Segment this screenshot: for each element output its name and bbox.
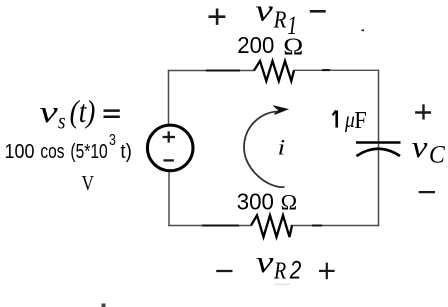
small dash artifact top right bbox=[362, 29, 365, 31]
svg-text:200: 200 bbox=[237, 32, 274, 58]
wire bottom horizontal right segment bbox=[291, 225, 380, 227]
svg-text:3: 3 bbox=[109, 132, 116, 149]
svg-text:V: V bbox=[82, 171, 95, 195]
label plus sign of vR1 bbox=[209, 15, 226, 18]
svg-text:i: i bbox=[278, 135, 286, 160]
current loop arrowhead bbox=[274, 106, 288, 115]
svg-text:Ω: Ω bbox=[283, 33, 303, 60]
svg-text:R: R bbox=[273, 7, 287, 34]
wire bottom darker overlay segment bbox=[202, 224, 239, 226]
wire top horizontal right segment bbox=[294, 69, 380, 71]
label plus sign of vC bbox=[415, 111, 431, 113]
wire top darker overlay segment bbox=[206, 69, 240, 71]
current loop arc i bbox=[244, 112, 285, 188]
svg-text:cos: cos bbox=[40, 141, 64, 163]
svg-text:R: R bbox=[273, 259, 286, 285]
label plus sign of vR2 bbox=[319, 270, 335, 272]
wire left vertical upper (top corner to source) bbox=[168, 70, 170, 125]
wire right vertical bbox=[378, 70, 380, 226]
voltage source minus sign bbox=[164, 159, 174, 161]
label minus sign of vR1 bbox=[310, 10, 326, 13]
svg-text:(t): (t) bbox=[70, 93, 96, 129]
label minus sign of vC bbox=[419, 191, 435, 193]
wire top horizontal left segment bbox=[168, 70, 255, 72]
svg-text:300: 300 bbox=[237, 189, 274, 215]
svg-text:t): t) bbox=[120, 141, 131, 163]
resistor R2 300 ohm zigzag bbox=[251, 215, 292, 237]
svg-text:F: F bbox=[354, 108, 367, 134]
svg-text:v: v bbox=[39, 94, 58, 129]
svg-text:v: v bbox=[255, 0, 273, 28]
resistor R1 200 ohm zigzag bbox=[254, 61, 294, 81]
small dot artifact bottom left bbox=[102, 304, 106, 307]
svg-text:μ: μ bbox=[344, 107, 355, 132]
wire left vertical lower (source to bottom corner) bbox=[168, 171, 170, 226]
svg-text:100: 100 bbox=[5, 141, 35, 163]
wire bottom horizontal left segment bbox=[168, 225, 251, 227]
svg-text:s: s bbox=[58, 108, 66, 133]
svg-text:v: v bbox=[256, 244, 274, 279]
capacitor C 1uF top plate bbox=[356, 141, 401, 144]
svg-text:v: v bbox=[412, 129, 428, 164]
svg-text:Ω: Ω bbox=[281, 190, 298, 215]
wire bottom small dark blip bbox=[312, 225, 322, 227]
svg-text:C: C bbox=[429, 142, 445, 169]
faint underline artifact under vR2 bbox=[275, 283, 290, 285]
wire top small dark blip bbox=[322, 69, 330, 71]
voltage source VS circle bbox=[147, 125, 193, 171]
label 1 uF bbox=[335, 111, 338, 128]
label minus sign of vR2 bbox=[216, 270, 232, 272]
capacitor C 1uF curved bottom plate bbox=[357, 149, 401, 156]
voltage source plus sign bbox=[163, 136, 175, 138]
svg-text:(5*10: (5*10 bbox=[70, 141, 107, 163]
svg-text:2: 2 bbox=[289, 257, 301, 285]
